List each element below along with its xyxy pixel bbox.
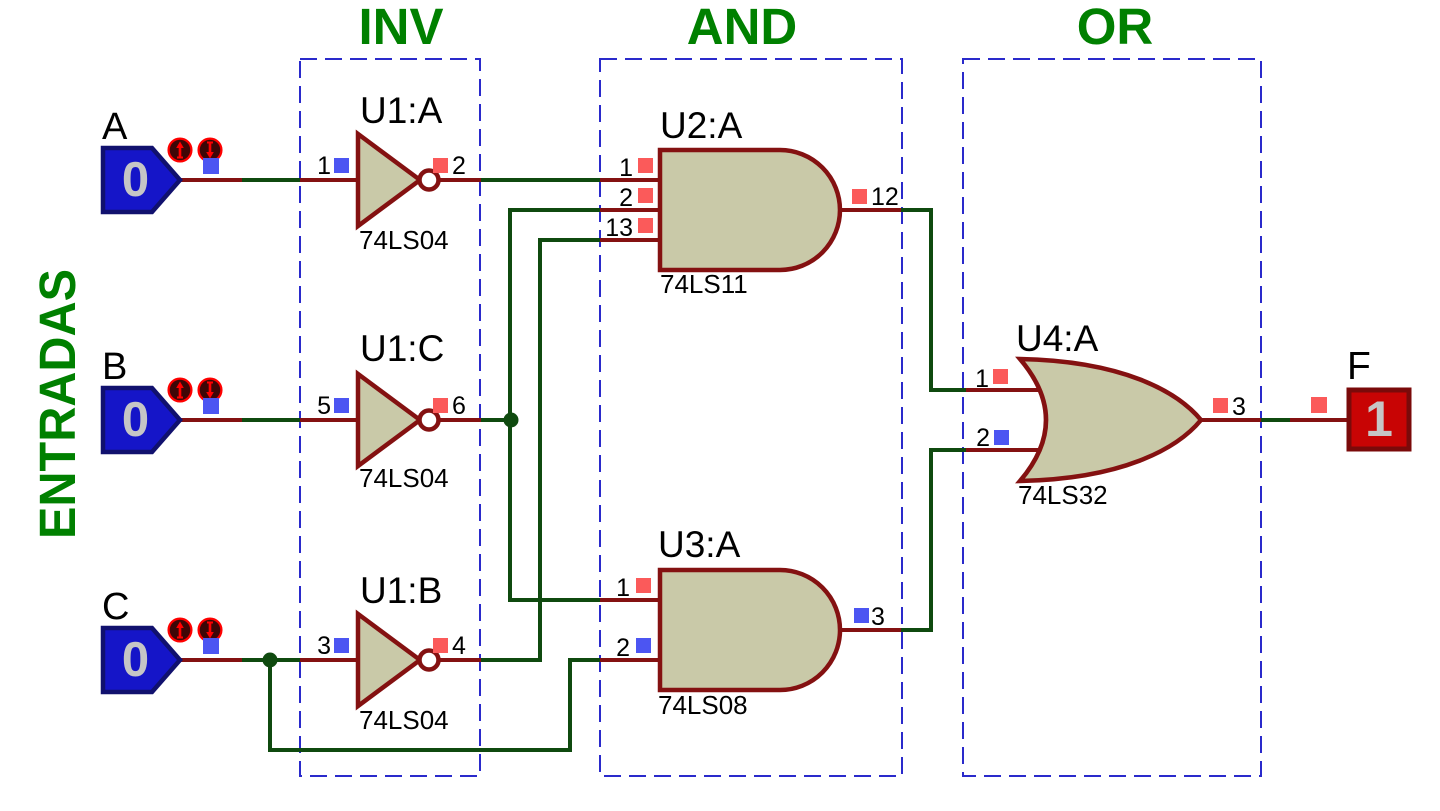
pin 2 U1:A (433, 158, 448, 173)
svg-text:3: 3 (871, 603, 885, 631)
indicator square B (203, 398, 219, 414)
wire A to U1:A (242, 178, 302, 182)
wire U3:A out to U4:A pin2 (899, 450, 968, 630)
pin stubs U1:A (300, 178, 481, 182)
svg-text:A: A (102, 106, 128, 148)
toggle up button C (169, 619, 192, 642)
svg-text:74LS04: 74LS04 (359, 705, 449, 735)
wire B to U1:C (242, 418, 302, 422)
node junction C (263, 653, 278, 668)
svg-text:74LS04: 74LS04 (359, 225, 449, 255)
svg-text:0: 0 (122, 393, 149, 447)
pin 12 U2:A (852, 189, 867, 204)
svg-text:0: 0 (122, 633, 149, 687)
toggle up button B (169, 379, 192, 402)
svg-text:AND: AND (687, 0, 798, 55)
input C logicstate (103, 628, 180, 692)
wire U2:A out to U4:A pin1 (899, 210, 968, 390)
group box OR (963, 59, 1261, 776)
pin stub B (179, 418, 242, 422)
pin stub A (179, 178, 242, 182)
pin stubs U4:A (966, 390, 1261, 450)
svg-text:1: 1 (619, 154, 633, 182)
svg-text:1: 1 (1365, 391, 1393, 447)
svg-text:B: B (102, 346, 127, 388)
group box INV (300, 59, 480, 776)
toggle down button B (199, 379, 222, 402)
svg-text:5: 5 (317, 392, 331, 420)
wire U1:B out to U2:A pin13 (479, 240, 602, 660)
pin 3 U3:A (854, 608, 869, 623)
svg-text:13: 13 (605, 214, 633, 242)
inverter U1:A (358, 134, 420, 226)
pin stubs U3:A (600, 600, 901, 660)
svg-text:74LS32: 74LS32 (1018, 480, 1108, 510)
svg-text:0: 0 (122, 153, 149, 207)
svg-text:4: 4 (452, 632, 466, 660)
svg-text:74LS11: 74LS11 (660, 269, 748, 299)
svg-text:C: C (102, 586, 129, 628)
output F logicprobe (1349, 390, 1409, 449)
svg-text:3: 3 (317, 632, 331, 660)
svg-text:1: 1 (975, 365, 989, 393)
svg-text:U1:C: U1:C (360, 328, 444, 369)
wire U1:A out to U2:A pin1 (479, 178, 602, 182)
pin 4 U1:B (433, 638, 448, 653)
indicator square C (203, 638, 219, 654)
pin stubs U1:B (300, 658, 481, 662)
input B logicstate (103, 388, 180, 452)
wire U1:C out to node (479, 418, 512, 422)
pin stubs U1:C (300, 418, 481, 422)
svg-text:2: 2 (976, 424, 990, 452)
toggle down button A (199, 139, 222, 162)
svg-text:U1:B: U1:B (360, 570, 442, 611)
svg-text:U4:A: U4:A (1016, 318, 1099, 359)
input A logicstate (103, 148, 180, 212)
svg-text:U3:A: U3:A (658, 524, 741, 565)
wire C to U1:B (242, 658, 302, 662)
svg-text:12: 12 (871, 183, 899, 211)
pin stub F (1290, 418, 1350, 422)
pin 6 U1:C (433, 398, 448, 413)
indicator square A (203, 158, 219, 174)
wire node to U3:A pin1 (510, 420, 602, 600)
svg-text:ENTRADAS: ENTRADAS (29, 269, 86, 539)
toggle down button C (199, 619, 222, 642)
pin stub C (179, 658, 242, 662)
svg-text:6: 6 (452, 392, 466, 420)
group box AND (600, 59, 902, 776)
node junction B-inverted (504, 413, 519, 428)
svg-text:U2:A: U2:A (660, 105, 743, 146)
pin stubs U2:A (600, 180, 901, 240)
toggle up button A (169, 139, 192, 162)
svg-text:OR: OR (1077, 0, 1154, 55)
wire C node to U3:A pin2 (270, 660, 602, 750)
svg-text:3: 3 (1232, 393, 1246, 421)
inverter U1:C (358, 374, 420, 466)
svg-text:2: 2 (452, 152, 466, 180)
wire node to U2:A pin2 (510, 210, 602, 420)
pin 3 U4:A (1213, 398, 1228, 413)
inverter U1:B (358, 614, 420, 706)
svg-text:U1:A: U1:A (360, 90, 443, 131)
svg-text:74LS04: 74LS04 (359, 463, 449, 493)
svg-text:1: 1 (616, 574, 630, 602)
or gate U4:A (1020, 359, 1201, 481)
svg-text:F: F (1347, 345, 1371, 388)
wire U4:A out to F (1259, 418, 1292, 422)
svg-text:2: 2 (616, 634, 630, 662)
svg-text:74LS08: 74LS08 (658, 690, 748, 720)
svg-text:INV: INV (358, 0, 443, 55)
and gate U3:A (660, 570, 840, 690)
indicator square F wire (1311, 397, 1327, 413)
and gate U2:A (660, 150, 840, 270)
svg-text:2: 2 (619, 184, 633, 212)
svg-text:1: 1 (317, 152, 331, 180)
